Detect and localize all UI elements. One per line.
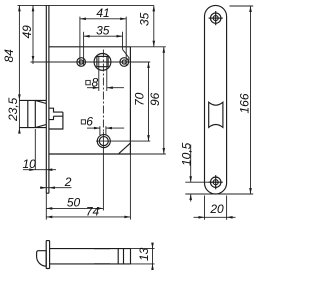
latch top edge bbox=[19, 99, 46, 101]
svg-text:20: 20 bbox=[209, 202, 224, 216]
division line 2 bbox=[123, 249, 125, 264]
corner diagonal slash bbox=[119, 143, 131, 154]
svg-text:50: 50 bbox=[67, 196, 81, 210]
dimension 2 bbox=[40, 187, 72, 189]
division line 1 bbox=[117, 249, 119, 264]
bold segment bottom bbox=[94, 263, 110, 265]
dimension 70 bbox=[148, 62, 150, 141]
latch bottom edge bbox=[19, 127, 46, 129]
svg-text:8: 8 bbox=[92, 75, 99, 89]
svg-text:84: 84 bbox=[2, 49, 16, 63]
svg-text:10,5: 10,5 bbox=[179, 142, 193, 166]
dimension 10,5 bbox=[185, 181, 216, 183]
svg-text:2: 2 bbox=[64, 175, 72, 189]
svg-text:49: 49 bbox=[20, 25, 34, 39]
svg-text:74: 74 bbox=[86, 204, 100, 218]
dimension 20 bbox=[204, 196, 206, 220]
case top edge extension bbox=[130, 46, 165, 48]
case right edge extension down bbox=[129, 154, 131, 220]
svg-text:23,5: 23,5 bbox=[6, 97, 20, 122]
dimension square 6 bbox=[99, 126, 101, 135]
case strip top edge bbox=[50, 248, 131, 250]
top screw hole bbox=[211, 13, 221, 23]
faceplate front extension down bbox=[45, 193, 47, 219]
latch bevel line bbox=[34, 100, 36, 127]
case bottom edge bbox=[49, 153, 130, 155]
text square8 bbox=[86, 80, 90, 84]
cylinder hole bbox=[97, 135, 110, 148]
faceplate back line bbox=[48, 5, 50, 193]
latch front face bbox=[27, 100, 29, 127]
case strip bottom edge bbox=[50, 263, 131, 265]
svg-text:96: 96 bbox=[148, 92, 162, 106]
dimension 49 vertical line bbox=[32, 5, 34, 64]
latch spring box bbox=[49, 108, 63, 129]
vertical centerline (dash-dot) bbox=[102, 50, 104, 133]
follower circle bbox=[94, 54, 111, 71]
dimension 50 bbox=[46, 207, 103, 209]
bottom screw hole bbox=[211, 177, 221, 187]
svg-text:166: 166 bbox=[238, 93, 252, 113]
dimension 35 horizontal bbox=[83, 32, 85, 66]
text square6 bbox=[81, 120, 85, 124]
top-right diagonal detail bbox=[123, 49, 129, 60]
case strip right end bbox=[130, 249, 132, 264]
svg-text:35: 35 bbox=[96, 23, 110, 37]
latch cutout bbox=[209, 102, 223, 127]
follower square bbox=[97, 56, 108, 66]
svg-text:41: 41 bbox=[96, 6, 109, 20]
dimension 166 bbox=[230, 5, 254, 7]
svg-text:10: 10 bbox=[23, 157, 37, 171]
case top edge bbox=[49, 46, 130, 48]
faceplate front line bbox=[45, 5, 47, 193]
bold segment top bbox=[94, 248, 110, 250]
latch bevel bottom diagonal bbox=[35, 125, 46, 128]
dimension 13 bbox=[131, 248, 155, 250]
faceplate bottom cap bbox=[46, 192, 49, 194]
case right edge bbox=[129, 47, 131, 154]
svg-text:35: 35 bbox=[137, 12, 151, 26]
dimension square 8 bbox=[98, 56, 100, 91]
svg-text:6: 6 bbox=[86, 114, 93, 128]
latch bevel top diagonal bbox=[35, 100, 46, 103]
dimension 41 bbox=[79, 17, 81, 66]
right screw hole bbox=[120, 58, 129, 67]
dimension 74 bbox=[46, 216, 130, 218]
dimension 35 vertical (top right) bbox=[153, 5, 155, 46]
dimension 96 bbox=[163, 47, 165, 154]
top extension line bbox=[18, 4, 154, 6]
dimension 84 / 23,5 vertical line bbox=[18, 5, 20, 133]
cylinder hole horizontal centerline bbox=[96, 140, 150, 142]
left screw hole bbox=[77, 58, 86, 67]
case bottom edge extension bbox=[130, 153, 165, 155]
holes horizontal centerline bbox=[31, 61, 151, 63]
faceplate outline bbox=[205, 5, 227, 194]
svg-text:70: 70 bbox=[133, 92, 147, 106]
faceplate bottom view bbox=[46, 241, 49, 269]
latch nose bottom view bbox=[37, 251, 47, 267]
dimension 10 bbox=[34, 129, 36, 170]
svg-text:13: 13 bbox=[137, 247, 151, 261]
